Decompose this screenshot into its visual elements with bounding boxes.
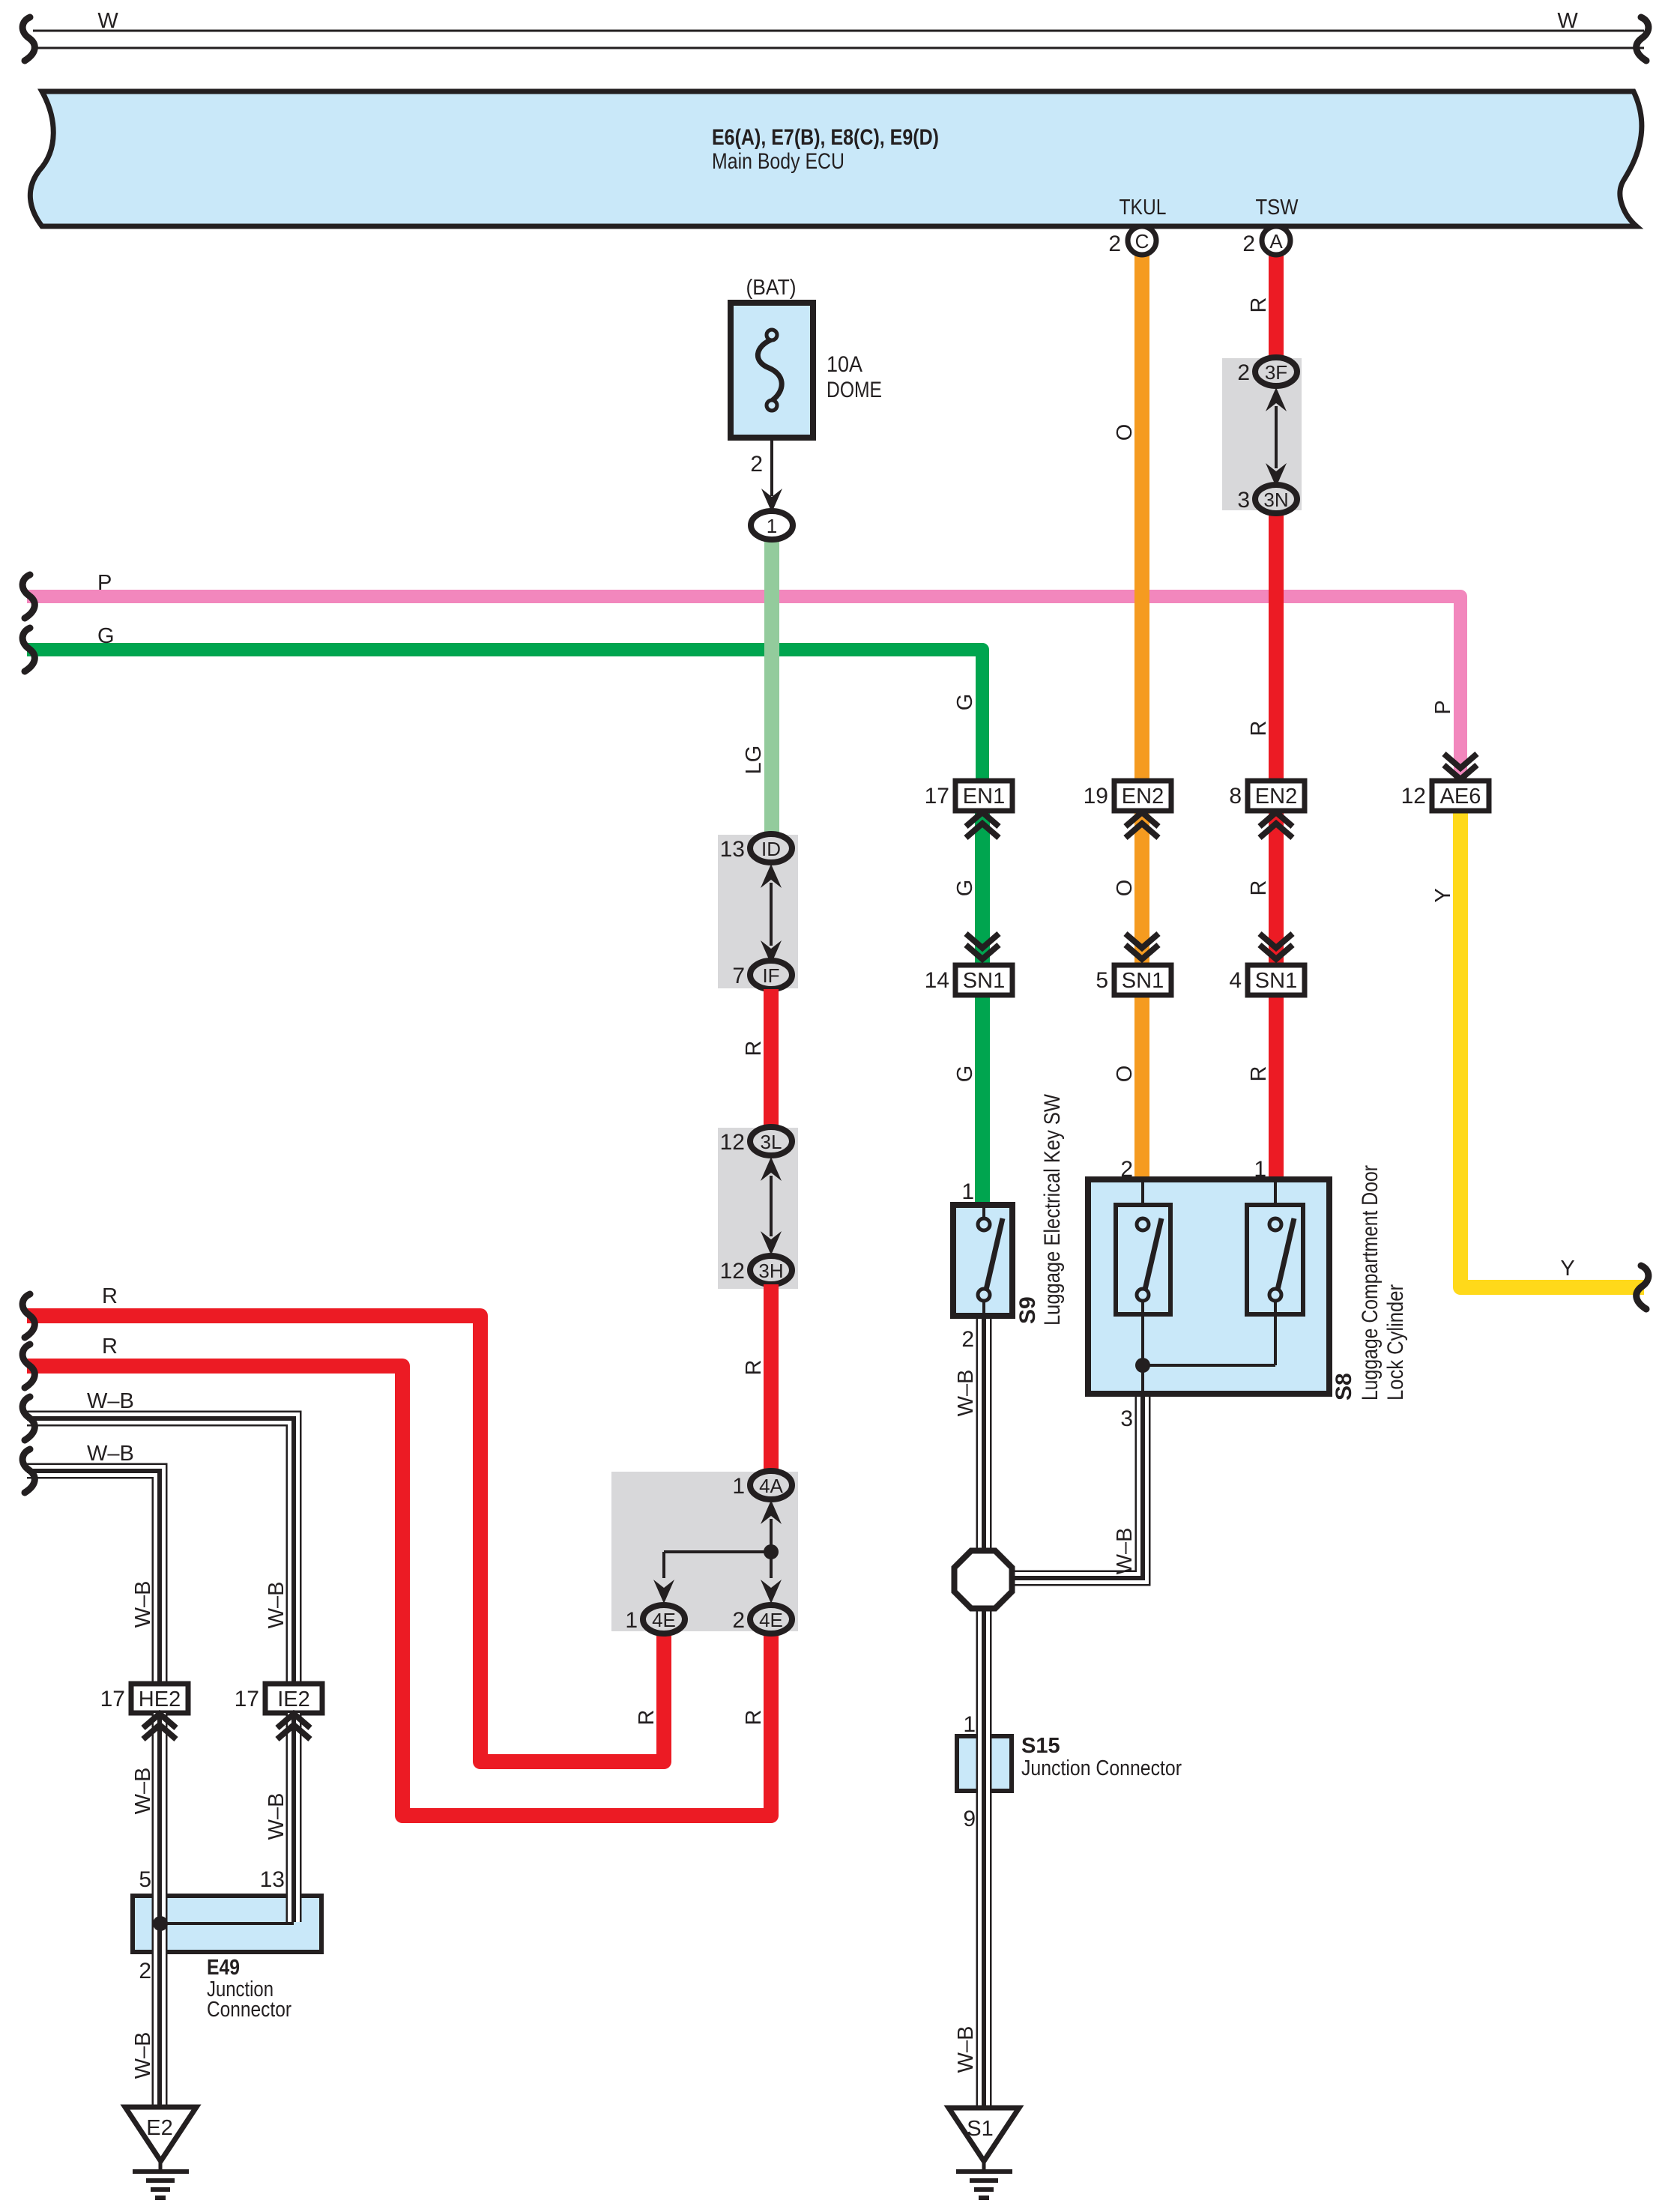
svg-text:HE2: HE2 (139, 1687, 181, 1711)
wire W-B from HE2 down to E2 ground (152, 1713, 168, 2110)
oval connector 3F pin 2 (1255, 357, 1297, 386)
svg-text:W: W (97, 9, 118, 33)
switch S8 Luggage Compartment Door Lock Cylinder (1088, 1179, 1329, 1394)
fuse 10A DOME (BAT) (731, 303, 813, 438)
svg-text:ID: ID (761, 838, 781, 860)
svg-text:R: R (1247, 721, 1271, 737)
svg-text:Y: Y (1431, 888, 1455, 902)
svg-text:R: R (635, 1710, 659, 1726)
oval connector 3H pin 12 (750, 1256, 792, 1284)
wire R (red) from ECU pin A down to 3F (1269, 256, 1284, 358)
svg-text:S1: S1 (967, 2117, 993, 2141)
wire LG (light green) from fuse oval 1 down to ID (764, 536, 779, 836)
svg-text:4E: 4E (759, 1609, 783, 1631)
gray shield box 3F/3N (1222, 358, 1302, 510)
svg-text:W–B: W–B (265, 1793, 288, 1840)
wire W-B from S8 pin 3 to octagon joint (1013, 1394, 1143, 1578)
wire P (pink) horizontal from left break to AE6 drop (27, 596, 1460, 781)
wire R from IF down to 3L (764, 989, 779, 1128)
svg-text:S15: S15 (1021, 1734, 1060, 1758)
connector box AE6 pin 12 (1432, 781, 1489, 811)
connector box EN1 pin 17 (955, 781, 1012, 811)
svg-text:13: 13 (260, 1867, 285, 1892)
svg-text:2: 2 (1237, 360, 1250, 385)
svg-text:1: 1 (1254, 1157, 1266, 1182)
svg-text:2: 2 (1242, 232, 1255, 256)
svg-text:Luggage Electrical Key SW: Luggage Electrical Key SW (1040, 1093, 1065, 1326)
svg-text:1: 1 (767, 515, 777, 537)
wire W-B from left break to HE2 (27, 1471, 160, 1684)
svg-text:Connector: Connector (207, 1998, 291, 2022)
oval connector ID pin 13 (750, 834, 792, 862)
svg-text:5: 5 (1096, 968, 1108, 993)
svg-text:P: P (97, 571, 112, 595)
gray shield box 4A/4E (611, 1472, 798, 1631)
svg-text:2: 2 (139, 1959, 151, 1983)
oval connector 4E pin 2 (750, 1605, 792, 1634)
svg-text:G: G (953, 880, 977, 897)
svg-text:G: G (953, 1066, 977, 1083)
svg-text:R: R (102, 1284, 118, 1308)
svg-text:9: 9 (963, 1807, 976, 1831)
connector box IE2 pin 17 (265, 1684, 322, 1713)
wire R staircase from 4E pin2 to left break (27, 1366, 771, 1816)
svg-text:12: 12 (720, 1130, 745, 1155)
Main Body ECU box E6/E7/E8/E9 (30, 91, 1642, 226)
svg-text:1: 1 (625, 1608, 638, 1633)
break squiggle left of W-B wire 1 (22, 1397, 34, 1440)
svg-text:2: 2 (1120, 1157, 1133, 1182)
svg-text:8: 8 (1229, 784, 1242, 809)
svg-text:2: 2 (961, 1327, 974, 1352)
svg-text:Main Body ECU: Main Body ECU (712, 149, 844, 174)
svg-text:O: O (1113, 1066, 1137, 1083)
break squiggle left of W-B wire 2 (22, 1449, 34, 1493)
svg-text:G: G (953, 694, 977, 711)
chevron arrow down into SN1 (R) (1260, 934, 1293, 959)
junction connector E49 box (133, 1896, 321, 1952)
svg-text:W–B: W–B (265, 1582, 288, 1629)
chevron arrow up into EN2 (R) (1260, 812, 1293, 838)
wire R staircase from 4E pin1 to left break (27, 1316, 664, 1762)
svg-text:17: 17 (235, 1687, 259, 1711)
S8 right contact box (1247, 1205, 1303, 1314)
svg-text:W–B: W–B (87, 1389, 134, 1413)
svg-text:Luggage Compartment Door: Luggage Compartment Door (1358, 1165, 1383, 1400)
svg-text:E49: E49 (207, 1956, 240, 1980)
svg-text:DOME: DOME (827, 378, 882, 402)
svg-text:5: 5 (139, 1867, 151, 1892)
gray shield box 3L/3H (718, 1128, 798, 1289)
svg-text:EN2: EN2 (1122, 785, 1164, 809)
svg-text:2: 2 (1108, 232, 1121, 256)
break squiggle right of W wire (1637, 17, 1649, 61)
svg-text:1: 1 (732, 1474, 745, 1499)
chevron arrow up into EN1 (966, 812, 999, 838)
E49 internal jumper (160, 1922, 294, 1925)
oval connector 3N pin 3 (1255, 485, 1297, 513)
break squiggle left of W wire (22, 17, 34, 61)
svg-text:2: 2 (750, 452, 763, 477)
svg-text:R: R (742, 1710, 766, 1726)
svg-text:3H: 3H (758, 1260, 783, 1282)
svg-text:3: 3 (1237, 488, 1250, 513)
svg-text:R: R (1247, 297, 1271, 313)
svg-text:R: R (1247, 1066, 1271, 1082)
svg-text:P: P (1431, 700, 1455, 714)
svg-text:A: A (1269, 230, 1283, 253)
svg-text:17: 17 (100, 1687, 125, 1711)
svg-text:W–B: W–B (954, 2026, 978, 2073)
connector box SN1 pin 4 (1248, 965, 1305, 995)
svg-text:14: 14 (925, 968, 949, 993)
svg-text:12: 12 (1401, 784, 1426, 809)
connector box HE2 pin 17 (131, 1684, 188, 1713)
svg-text:O: O (1113, 424, 1137, 441)
svg-text:1: 1 (961, 1179, 974, 1204)
svg-text:3L: 3L (761, 1131, 782, 1153)
wire R from SN1 to S8 (1269, 994, 1284, 1181)
svg-text:W–B: W–B (1113, 1528, 1137, 1575)
oval connector IF pin 7 (750, 961, 792, 989)
chevron arrow down into SN1 (O) (1125, 934, 1158, 959)
wire R from 3H down to 4A (764, 1284, 779, 1472)
oval connector 4A pin 1 (750, 1471, 792, 1499)
wire Y (yellow) from AE6 down and right to break (1460, 811, 1644, 1287)
svg-text:W–B: W–B (954, 1370, 978, 1417)
svg-text:3F: 3F (1265, 361, 1287, 384)
svg-text:4A: 4A (759, 1475, 783, 1497)
svg-text:3N: 3N (1263, 489, 1288, 511)
chevron arrow up into IE2 (277, 1714, 310, 1739)
svg-text:EN2: EN2 (1255, 785, 1297, 809)
svg-text:O: O (1113, 880, 1137, 897)
svg-text:W–B: W–B (131, 1581, 155, 1628)
svg-text:W: W (1557, 9, 1578, 33)
wire W (white) top double line (33, 31, 1644, 48)
switch S9 Luggage Electrical Key SW (953, 1205, 1012, 1316)
svg-text:4: 4 (1229, 968, 1242, 993)
svg-text:3: 3 (1120, 1406, 1133, 1431)
svg-text:SN1: SN1 (1122, 969, 1164, 993)
svg-text:G: G (97, 624, 115, 648)
wire from fuse pin 2 to oval 1 (770, 438, 773, 496)
svg-text:E2: E2 (146, 2116, 172, 2140)
S8 internal wiring (1141, 1301, 1144, 1365)
svg-text:AE6: AE6 (1440, 785, 1481, 809)
svg-text:19: 19 (1084, 784, 1108, 809)
svg-text:1: 1 (963, 1712, 976, 1737)
chevron arrow up into HE2 (143, 1714, 176, 1739)
wire O from EN2 to SN1 (1134, 811, 1149, 967)
oval connector 3L pin 12 (750, 1127, 792, 1155)
svg-text:R: R (742, 1041, 766, 1057)
wire R (red) from 3N down to EN2 (1269, 512, 1284, 781)
S8 left contact box (1116, 1205, 1170, 1314)
svg-text:2: 2 (732, 1608, 745, 1633)
wire W-B from S9 pin 2 down to S1 ground (976, 1316, 992, 2110)
svg-text:10A: 10A (827, 352, 862, 377)
svg-text:Y: Y (1560, 1257, 1574, 1281)
svg-text:R: R (102, 1335, 118, 1359)
octagon joint connector (955, 1551, 1012, 1609)
svg-text:12: 12 (720, 1259, 745, 1284)
connector box EN2 pin 19 (1114, 781, 1171, 811)
wire W-B from left break to IE2 (outer black) (27, 1418, 294, 1684)
arrow into oval 1 (761, 489, 782, 513)
svg-text:E6(A), E7(B), E8(C), E9(D): E6(A), E7(B), E8(C), E9(D) (712, 125, 939, 150)
wire O (orange) from ECU pin C down to EN2 (1134, 256, 1149, 781)
wire G from EN1 to SN1 (975, 811, 990, 967)
chevron arrow up into EN2 (O) (1125, 812, 1158, 838)
oval connector 1 (751, 511, 793, 540)
svg-text:SN1: SN1 (1255, 969, 1297, 993)
wire R from EN2 to SN1 (1269, 811, 1284, 967)
wire O from SN1 to S8 (1134, 994, 1149, 1181)
wire G from SN1 to S9 (975, 994, 990, 1206)
wire W-B from IE2 down to E49 jumper (286, 1713, 302, 1922)
svg-text:TKUL: TKUL (1119, 196, 1167, 220)
connector box SN1 pin 14 (955, 965, 1012, 995)
svg-text:W–B: W–B (87, 1442, 134, 1466)
svg-text:Lock Cylinder: Lock Cylinder (1383, 1284, 1408, 1400)
svg-text:TSW: TSW (1256, 196, 1299, 220)
connector circle C pin 2 TKUL (1128, 226, 1156, 255)
svg-text:(BAT): (BAT) (746, 276, 797, 300)
connector circle A pin 2 TSW (1262, 226, 1290, 255)
svg-text:R: R (1247, 880, 1271, 896)
svg-text:R: R (742, 1360, 766, 1376)
svg-text:IF: IF (762, 964, 779, 987)
svg-text:7: 7 (732, 964, 745, 988)
break squiggle left of R wire 1 (22, 1294, 34, 1338)
svg-text:W–B: W–B (131, 1768, 155, 1815)
svg-text:W–B: W–B (131, 2032, 155, 2079)
svg-text:S8: S8 (1332, 1373, 1356, 1400)
wire G (green) horizontal from left break to EN1 drop (27, 650, 982, 781)
chevron arrow down into AE6 (P) (1444, 754, 1477, 779)
svg-text:17: 17 (925, 784, 949, 809)
svg-text:S9: S9 (1015, 1296, 1040, 1324)
svg-text:4E: 4E (652, 1609, 676, 1631)
ground S1 (949, 2108, 1019, 2161)
junction connector S15 box (957, 1736, 1012, 1791)
ground E2 (125, 2107, 196, 2161)
break squiggle left of R wire 2 (22, 1344, 34, 1388)
svg-text:IE2: IE2 (277, 1687, 310, 1711)
svg-text:C: C (1135, 230, 1149, 253)
connector box SN1 pin 5 (1114, 965, 1171, 995)
break squiggle left of P wire (22, 575, 34, 618)
gray shield box ID/IF (718, 835, 798, 988)
oval connector 4E pin 1 (643, 1605, 685, 1634)
chevron arrow down into SN1 (G) (966, 934, 999, 959)
svg-text:LG: LG (742, 746, 766, 775)
break squiggle left of G wire (22, 628, 34, 671)
connector box EN2 pin 8 (1248, 781, 1305, 811)
svg-text:SN1: SN1 (963, 969, 1005, 993)
break squiggle right of Y wire (1637, 1266, 1649, 1309)
svg-text:Junction Connector: Junction Connector (1021, 1756, 1182, 1780)
svg-text:EN1: EN1 (963, 785, 1005, 809)
svg-text:13: 13 (720, 837, 745, 862)
